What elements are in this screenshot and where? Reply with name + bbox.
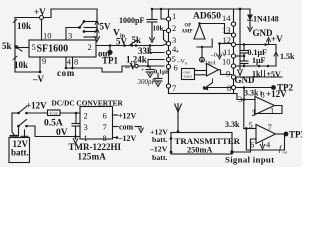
wire opampA power [260, 92, 262, 96]
svg-text:DC/DC CONVERTER: DC/DC CONVERTER [52, 99, 124, 108]
wire opampA feedback [255, 106, 283, 114]
wires one-shot to comparator [195, 70, 207, 72]
svg-text:5V: 5V [116, 37, 128, 47]
wire opampA +input [237, 99, 255, 101]
svg-text:10k: 10k [14, 60, 28, 70]
wire pin9 row 1k +5V [236, 76, 282, 78]
wire opampB ground pin4 [262, 142, 264, 146]
wire fuse to converter [60, 112, 80, 114]
discharge switch lever [204, 83, 213, 90]
wire opamp out to pin13 [200, 24, 232, 34]
svg-text:TP3: TP3 [289, 130, 302, 140]
svg-text:250mA: 250mA [187, 146, 212, 155]
potentiometer 5k wiper arrow [15, 47, 22, 52]
svg-text:2: 2 [172, 23, 176, 33]
svg-text:0.5A: 0.5A [44, 119, 63, 129]
svg-text:TP1: TP1 [102, 56, 119, 66]
svg-text:+12V: +12V [266, 89, 287, 99]
svg-text:3.3k: 3.3k [244, 89, 259, 98]
diode D1 1N4148 [249, 9, 251, 15]
battery switch lower [17, 125, 20, 128]
capacitor C6 (1k row) [261, 71, 263, 78]
wire bias internal [197, 39, 212, 47]
svg-text:5: 5 [249, 120, 253, 130]
potentiometer 5k top wiper [123, 44, 126, 47]
svg-text:1mA: 1mA [205, 61, 216, 67]
svg-text:7: 7 [172, 83, 176, 93]
svg-text:3.3k: 3.3k [225, 120, 240, 129]
node +V open circle [40, 16, 44, 20]
wire to fuse [27, 112, 48, 114]
op-amp U2a triangle (points up) [194, 25, 205, 40]
svg-text:com: com [57, 68, 75, 78]
current source 1mA [201, 47, 203, 57]
svg-text:3: 3 [68, 31, 72, 41]
transmitter box [171, 133, 232, 155]
capacitor C2 0.1uF [149, 66, 151, 69]
wire pin8 SF1600 down [72, 57, 74, 68]
capacitor C3 300pF [157, 74, 159, 79]
wire comparator to pin8 [204, 87, 232, 89]
svg-text:14: 14 [222, 13, 231, 23]
svg-text:9: 9 [226, 69, 230, 79]
wire pin8 row TP2 [236, 87, 272, 89]
IC U2 AD650 box [169, 9, 234, 94]
testpoint TP1 [109, 46, 111, 51]
wire pin1 AD650 elbow [161, 9, 166, 19]
svg-text:2: 2 [84, 111, 88, 121]
svg-text:batt.: batt. [152, 135, 167, 144]
svg-text:+V: +V [34, 7, 46, 17]
svg-text:1N4148: 1N4148 [253, 15, 279, 24]
svg-text:5k: 5k [132, 35, 142, 45]
op-amp U3 triangle [255, 97, 275, 115]
svg-text:1.5k: 1.5k [280, 52, 295, 61]
converter U5 TMR-1222HI box [80, 107, 113, 140]
wire pin9 SF1600 [39, 57, 41, 72]
resistor R1 10k left upper (wire) [14, 18, 16, 46]
svg-text:3: 3 [84, 122, 88, 132]
svg-text:11: 11 [223, 47, 231, 57]
svg-text:8: 8 [74, 57, 78, 67]
wire pin4 SF1600 down [65, 57, 67, 68]
resistor R3 10k (pin2 z-wire) [164, 31, 167, 42]
svg-text:FUSE: FUSE [50, 112, 58, 116]
IC U1 SF1600 box [29, 40, 96, 57]
battery B1 12V [12, 113, 14, 136]
rail refout [239, 9, 241, 70]
svg-text:+5V: +5V [267, 70, 282, 79]
wire pin3 SF1600 up [66, 28, 79, 41]
wire pin10 SF1600 [41, 20, 43, 41]
svg-text:SF1600: SF1600 [37, 44, 69, 55]
svg-text:–V: –V [124, 62, 137, 72]
svg-text:2: 2 [252, 108, 256, 118]
svg-text:5: 5 [32, 42, 36, 52]
wire com out [113, 126, 119, 128]
svg-text:+: + [176, 49, 180, 55]
wire -12V out [113, 137, 118, 139]
svg-text:GND: GND [235, 75, 256, 85]
wire opampB +input from signal [251, 139, 257, 152]
svg-text:10: 10 [222, 57, 231, 67]
one-shot box [182, 69, 195, 80]
svg-text:12: 12 [223, 35, 232, 45]
wire pin11 row [236, 55, 244, 57]
svg-text:7: 7 [103, 122, 107, 132]
antenna arms [175, 104, 178, 112]
wire opampB feedback loop [246, 129, 284, 151]
svg-text:batt.: batt. [152, 153, 167, 162]
svg-text:+: + [141, 68, 144, 74]
capacitor C4 0.1uF [243, 46, 245, 51]
wire AD650 top to diode [234, 8, 251, 10]
svg-text:10k: 10k [153, 25, 164, 33]
svg-text:5k: 5k [2, 41, 12, 51]
svg-text:10: 10 [43, 31, 52, 41]
wire opampB -input [244, 128, 256, 130]
svg-text:0.1μF: 0.1μF [154, 69, 170, 76]
capacitor C1 1000pF [151, 9, 153, 19]
svg-text:1μF: 1μF [252, 56, 266, 65]
resistor R2 10k left lower (wire) [14, 46, 16, 73]
svg-text:1000pF: 1000pF [119, 16, 144, 25]
svg-text:AMP: AMP [182, 30, 193, 35]
resistor R5 1.24k wire [148, 60, 164, 67]
svg-text:1: 1 [270, 106, 274, 116]
svg-text:125mA: 125mA [78, 152, 107, 162]
wire +V to top rail [44, 9, 98, 18]
svg-text:1: 1 [172, 11, 176, 21]
svg-text:8: 8 [261, 90, 265, 100]
svg-text:–V: –V [32, 74, 45, 84]
svg-text:4: 4 [67, 57, 72, 67]
resistor R4 33k wire [150, 46, 164, 53]
svg-text:6: 6 [103, 111, 107, 121]
svg-text:3: 3 [238, 94, 242, 104]
svg-text:batt.: batt. [11, 148, 29, 158]
antenna mast [177, 104, 179, 133]
wire opampB output TP3 [276, 133, 285, 135]
arrowhead rail bottom [95, 37, 100, 42]
svg-text:SHOT: SHOT [184, 75, 194, 79]
capacitor C7 converter input [75, 113, 77, 123]
wire -V to pin6 [139, 65, 165, 67]
wire com run [66, 66, 134, 72]
capacitor C5 1uF [243, 57, 245, 61]
svg-text:5V: 5V [100, 22, 112, 32]
rail 5V select [96, 9, 98, 39]
switch S1 contacts [84, 21, 97, 23]
svg-text:TMR-1222HI: TMR-1222HI [69, 142, 122, 152]
wire pot to pin5 [15, 47, 29, 49]
wire internal pin12 [220, 43, 232, 45]
resistor R6 1.5k rail [275, 46, 277, 67]
svg-text:2: 2 [88, 42, 92, 52]
svg-text:6: 6 [250, 140, 254, 150]
wire +12V out [113, 114, 118, 116]
svg-text:s: s [185, 62, 187, 67]
svg-text:300pF: 300pF [137, 78, 157, 86]
svg-text:com: com [119, 123, 134, 132]
svg-text:+V: +V [271, 34, 283, 44]
svg-text:8: 8 [227, 83, 231, 93]
tick arrows on rail [95, 21, 99, 25]
svg-text:Signal input: Signal input [225, 155, 274, 165]
pin circles left AD650 [166, 17, 170, 88]
terminal -V open circle [135, 64, 138, 67]
wire pin12 +V row [236, 44, 276, 46]
testpoint TP2 [271, 85, 276, 90]
testpoint TP3 [284, 132, 289, 137]
wire top to AD650 [152, 8, 169, 10]
svg-text:+12V: +12V [26, 101, 47, 111]
transmitter supply dots [170, 137, 173, 140]
svg-text:OP: OP [185, 24, 192, 29]
wire comparator out to pin9 [219, 70, 232, 75]
svg-text:GND: GND [253, 28, 274, 38]
switch S1 pole [78, 26, 81, 29]
wire out main signal [96, 44, 166, 46]
comparator U2b triangle [207, 64, 219, 77]
svg-text:AD650: AD650 [193, 12, 221, 22]
wire pin7 down elbow [168, 88, 170, 93]
svg-text:TRANSMITTER: TRANSMITTER [175, 136, 241, 146]
wire signal input [232, 151, 251, 153]
arrow +V up [268, 40, 270, 45]
wire pin10 row [236, 65, 276, 67]
svg-text:0V: 0V [56, 128, 68, 138]
svg-text:6: 6 [174, 63, 178, 73]
wire -V row [15, 71, 40, 73]
wire 0V run [27, 126, 81, 137]
fuse F1 0.5A [48, 110, 61, 116]
wire +V top feed [15, 17, 39, 19]
svg-text:7: 7 [268, 122, 272, 132]
resistor R7 3.3k vertical [243, 88, 245, 101]
svg-text:ou: ou [283, 150, 288, 155]
svg-text:13: 13 [222, 25, 231, 35]
svg-text:9: 9 [42, 56, 46, 66]
resistor R8 3.3k vertical lower [243, 100, 245, 129]
op-amp U4 triangle [256, 125, 276, 144]
svg-text:+12V: +12V [118, 112, 137, 121]
svg-text:10k: 10k [17, 21, 31, 31]
pin circles right AD650 [231, 22, 235, 90]
battery switch upper [12, 112, 18, 114]
